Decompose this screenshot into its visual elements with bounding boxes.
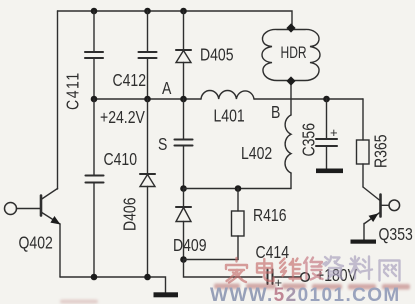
wire top rail [58, 11, 293, 28]
diode D405 [176, 50, 191, 63]
svg-text:+: + [330, 125, 338, 140]
capacitor C410 [86, 176, 104, 183]
wire R416 lower lead [237, 236, 239, 260]
node dot mid x183 [180, 185, 187, 192]
svg-text:B: B [271, 102, 280, 122]
coil HDR winding [262, 29, 320, 80]
watermark char 6 [350, 257, 372, 280]
svg-text:+24.2V: +24.2V [100, 107, 145, 127]
wire bottom rail [60, 277, 166, 292]
transistor Q353 base lead [381, 204, 390, 206]
svg-text:C412: C412 [113, 70, 147, 90]
watermark chinese text [226, 257, 400, 283]
wire C410 section [93, 99, 95, 176]
wire S cap branch [183, 99, 185, 140]
node diamond HDR bottom [286, 76, 295, 85]
svg-text:C356: C356 [299, 123, 319, 157]
inductor L402 [285, 115, 291, 173]
node dot x183 lower [180, 256, 187, 263]
svg-text:A: A [162, 78, 172, 98]
terminal circle Q402 [5, 203, 17, 215]
wire L402 bottom link [290, 173, 292, 189]
node dot A x147 [144, 96, 151, 103]
svg-text:L402: L402 [241, 143, 272, 163]
watermark char 7 [380, 261, 400, 281]
node dot A x183 [180, 96, 187, 103]
transistor Q353 base bar [379, 195, 382, 217]
capacitor C412 [139, 52, 157, 58]
node dot rail x183 [180, 8, 187, 15]
diode D406 [140, 174, 155, 187]
terminal +180V circle [301, 273, 310, 282]
wire D406 section [147, 99, 149, 174]
transistor Q353 emitter with arrow [365, 212, 381, 224]
node dot C356 top [323, 96, 330, 103]
wire Q402 emitter to bottom rail [59, 224, 61, 277]
svg-text:C410: C410 [104, 149, 138, 169]
svg-text:Q402: Q402 [19, 233, 53, 253]
capacitor C414 [268, 270, 273, 285]
transistor Q402 collector lead [41, 189, 58, 200]
wire Q353 emitter to ground [363, 224, 365, 240]
watermark char 4 [304, 258, 323, 280]
capacitor C411 [85, 52, 103, 58]
svg-text:D405: D405 [200, 45, 234, 65]
svg-text:D409: D409 [173, 235, 207, 255]
wire D409 to lower junction [183, 222, 185, 260]
transistor Q402 base bar [40, 196, 43, 216]
wire mid horizontal [184, 188, 292, 190]
wire R365 lower lead [362, 164, 364, 187]
node dot mid x238 [235, 185, 242, 192]
watermark url [210, 285, 401, 304]
wire C411 to node A line [93, 58, 95, 99]
wire HDR bottom to L402 [290, 81, 292, 115]
wire D405 branch upper [183, 11, 185, 50]
watermark char 3 [280, 259, 301, 281]
wire lower junction to R416 bottom [184, 259, 239, 261]
wire S cap to mid junction [183, 146, 185, 189]
svg-text:L401: L401 [214, 106, 245, 126]
wire lower junction down corner [184, 260, 263, 278]
ground Q353 [351, 240, 377, 244]
wire C414 to terminal [273, 276, 301, 278]
ground C356 [316, 169, 343, 174]
svg-text:S: S [158, 134, 168, 154]
terminal circle Q353 [389, 200, 400, 211]
transistor Q353 collector lead [363, 187, 380, 201]
svg-text:R365: R365 [371, 134, 391, 168]
wire C356 branch [326, 99, 328, 139]
svg-text:R416: R416 [253, 205, 287, 225]
svg-text:HDR: HDR [281, 44, 307, 62]
transistor Q402 emitter with arrow [41, 212, 60, 224]
svg-text:C411: C411 [63, 71, 83, 110]
wire C410 to bottom rail [93, 183, 95, 278]
watermark char 5 [324, 257, 344, 279]
node A wire [94, 98, 201, 100]
node dot rail x94 [91, 8, 98, 15]
watermark char 2 [257, 259, 274, 281]
ground bottom rail [154, 292, 179, 297]
wire C356 to ground [326, 146, 328, 169]
wire C412 to node A line [147, 58, 149, 99]
wire D406 to bottom rail [147, 187, 149, 278]
watermark char 1 [226, 258, 247, 283]
capacitor C356 [316, 139, 337, 146]
node dot rail x147 [144, 8, 151, 15]
inductor L401 [201, 91, 254, 99]
diode D409 [176, 207, 191, 222]
node diamond HDR top [286, 23, 295, 32]
svg-text:WWW.520101.COM: WWW.520101.COM [210, 285, 401, 304]
node dot bottom x147 [144, 274, 151, 281]
wire C411 branch upper [93, 11, 95, 52]
wire D409 branch [183, 189, 185, 208]
capacitor S [175, 140, 193, 146]
transistor Q402 base lead [17, 208, 41, 210]
wire L401 to R365 corner [254, 98, 363, 100]
wire to R365 [362, 99, 364, 140]
node dot bottom x94 [91, 274, 98, 281]
wire D405 to node A line [183, 63, 185, 100]
wire left vertical (top rail to Q402 collector) [57, 11, 59, 189]
watermark small red row [60, 284, 410, 304]
svg-text:D406: D406 [120, 197, 140, 231]
resistor R365 [357, 140, 370, 164]
resistor R416 [237, 189, 239, 212]
wire C412 branch upper [147, 11, 149, 52]
node dot A x94 [91, 96, 98, 103]
svg-text:Q353: Q353 [379, 224, 413, 244]
